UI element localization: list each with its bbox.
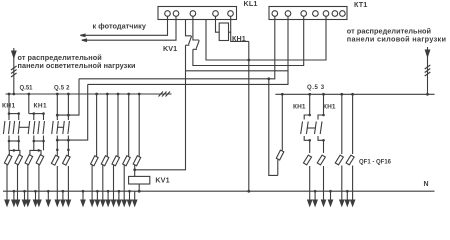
node bus1 tap 107.3 <box>106 93 109 96</box>
arrow 68.4 <box>67 191 69 201</box>
node at 57.3,140.1 <box>56 139 59 142</box>
wire from KT1 t1 down, left to 79 <box>79 16 275 79</box>
svg-text:KV1: KV1 <box>155 175 169 184</box>
node+arrow 97.4 <box>96 190 99 193</box>
coil KH1 (relay coil below KL1) <box>219 23 228 41</box>
KL1 terminal 5 <box>228 11 234 17</box>
wire 52a to breaker <box>56 150 58 156</box>
wire tap 282.3 down <box>281 94 283 150</box>
node KV1 coil to N bus <box>138 190 141 193</box>
node+arrow 24.5 <box>23 190 26 193</box>
wire coil right side to KL1 t5 <box>229 16 231 32</box>
arrow 102.8 <box>102 191 104 201</box>
bus1 break hatch <box>159 92 164 97</box>
wire vertical 185.5 down to KV1 coil feed, left to coil top node <box>135 71 186 170</box>
breaker QF 96.6 <box>91 156 99 166</box>
supply feeder left (from lighting distribution panel) <box>13 48 15 94</box>
split bracket group1 <box>9 150 20 155</box>
node+arrow 48.3 <box>47 190 50 193</box>
node split 309.7,115 <box>308 114 311 117</box>
breaker QF 341.8 <box>335 155 343 165</box>
node+arrow 108.1 <box>107 190 110 193</box>
wire vertical 248.8 from 41.4 down to N bus <box>248 41 250 191</box>
node KV1 feed junction <box>134 165 136 170</box>
node (junction dot) at 248.8,60 <box>247 59 250 62</box>
node bus2 tap 309.7 <box>308 93 311 96</box>
bottom hook bracket B <box>318 136 324 140</box>
arrow 341.8 <box>341 191 343 201</box>
supply feeder right (from power distribution panel) <box>427 47 429 94</box>
wire vertical 79 down, left to 0.52 branch node <box>57 79 79 115</box>
svg-text:Q.5 3: Q.5 3 <box>307 85 325 91</box>
KL1 terminal 4 <box>213 11 219 17</box>
node at 57.3,115.1 <box>56 114 59 117</box>
arrow 134.7 <box>134 191 136 201</box>
node+arrow 129.5 <box>128 190 131 193</box>
svg-text:КН1: КН1 <box>34 103 48 110</box>
contact KH1 blade A2 <box>306 122 308 135</box>
breaker QF branch 6 (inline at 68.4) <box>63 155 71 165</box>
node bus2 tap 282.3 <box>281 93 284 96</box>
bus bar 1 (lighting panel bus) <box>6 93 172 95</box>
KT1 terminal 2 <box>285 11 291 17</box>
contact KH1 blade B1 <box>315 122 317 135</box>
arrow 17.5 <box>17 191 19 201</box>
node+arrow 118.9 <box>118 190 121 193</box>
breaker QF branch 2 (top 19.9 -> bottom 15.4) <box>15 155 23 165</box>
breaker QF 118 <box>112 156 120 166</box>
contact KH1 pole 2b (double blade) <box>38 114 45 141</box>
node at 68.4,140.1 <box>67 139 70 142</box>
wire coil side down to node, right to vertical 249 <box>231 32 249 41</box>
KL1 terminal 1 <box>165 11 171 17</box>
node split 323.5,115 <box>322 114 325 117</box>
contact KH1 blade A1 <box>301 122 303 135</box>
node+arrow 13.9 <box>13 190 16 193</box>
linkage bar 52a-52b <box>58 126 63 128</box>
wire below aux contact down to junction, right to KT1 t2 <box>186 45 289 71</box>
breaker QF (control feed) <box>276 150 284 160</box>
arrow 309.7 <box>309 191 311 201</box>
node+arrow 315.1 <box>314 190 317 193</box>
breaker QF 128.7 <box>123 156 131 166</box>
node feeder-left / bus1 <box>12 93 15 96</box>
node bus1 tap 68.4 <box>67 93 70 96</box>
node+arrow 62.9 <box>62 190 65 193</box>
wire KL1 t4 to coil left side <box>216 16 220 32</box>
node+arrow 330.5 <box>329 190 332 193</box>
wire tap 57.3 down <box>56 94 58 115</box>
node at 268.8,78.8 <box>267 77 270 80</box>
node rejoin 309.7,140.3 <box>308 139 311 142</box>
arrow 7.0 <box>6 191 8 201</box>
svg-text:KL1: KL1 <box>244 0 258 8</box>
svg-text:QF1 - QF16: QF1 - QF16 <box>359 159 392 165</box>
breaker QF 352.6 <box>346 155 354 165</box>
pole wires to split bracket <box>9 141 19 150</box>
linkage bar group1-group2 <box>19 126 30 128</box>
arrow 113.5 <box>113 191 115 201</box>
node+arrow 347.3 <box>346 190 349 193</box>
wire from KL1 box bottom at 206 down, right to KT1 t5 <box>206 16 326 60</box>
node bus1 tap 139.2 <box>138 93 141 96</box>
node bus1 tap 28.8 <box>27 93 30 96</box>
breaker QF 107.3 <box>101 156 109 166</box>
node bus2 tap 352.6 <box>351 93 354 96</box>
KT1 terminal 1 <box>272 11 278 17</box>
svg-text:KV1: KV1 <box>163 44 177 53</box>
wire tap 28.8 down <box>28 94 30 114</box>
KL1 terminal 2 <box>173 11 179 17</box>
arrow 38.9 <box>38 191 40 201</box>
node bus1 tap 57.3 <box>56 93 59 96</box>
wire vertical 87.7 down, left to 0.52 branch lower node <box>57 84 87 140</box>
KT1 terminal 5 <box>323 11 329 17</box>
svg-text:к фотодатчику: к фотодатчику <box>93 21 147 30</box>
arrow 57.3 <box>56 191 58 201</box>
second contact (KL1 auxiliary) on wire at 185.5 <box>186 20 192 36</box>
wire to photosensor line 1 with left arrow <box>82 16 168 35</box>
relay box KL1 <box>158 7 237 20</box>
fuse QF 309.7 <box>309 140 311 153</box>
contact pole 52a (double blade) <box>52 115 59 150</box>
node N 248.8 <box>247 190 250 193</box>
wire tap 9 down <box>8 94 10 114</box>
bus bar 2 (power panel bus) <box>275 93 434 95</box>
arrow 92.1 <box>91 191 93 201</box>
contact KV1 (on wire from KL1 t3) <box>193 16 199 40</box>
breaker QF branch 5 (inline at 57.3) <box>51 155 59 165</box>
contact KH1 blade B2 <box>320 122 322 135</box>
wire to photosensor line 2 with left arrow <box>84 16 177 40</box>
contact KH1 pole 1a (double blade) <box>3 114 10 141</box>
svg-text:КН1: КН1 <box>2 103 16 110</box>
node+arrow 35.5 <box>34 190 37 193</box>
node bus1 tap 118 <box>117 93 120 96</box>
rejoin jumper group2 <box>34 140 44 142</box>
breaker QF branch 4 (top 41 -> bottom 36.5) <box>36 155 44 165</box>
pole wires to split bracket <box>34 141 44 150</box>
KT1 terminal 3 <box>301 11 307 17</box>
node rejoin 323.5,140.3 <box>322 139 325 142</box>
contact pole 52b (double blade) <box>63 115 70 150</box>
wire from KT1 t2 down through junction to horizontal 84.4 <box>88 16 288 84</box>
breaker QF branch 3 (top 29.9 -> bottom 25.4) <box>25 155 33 165</box>
KL1 terminal 3 <box>190 11 196 17</box>
svg-text:КН1: КН1 <box>293 104 306 111</box>
relay box KT1 <box>269 7 347 20</box>
svg-text:КН1: КН1 <box>323 104 336 111</box>
rejoin jumper group1 <box>9 140 19 142</box>
top hook bracket B <box>318 115 324 120</box>
svg-text:Q.5 2: Q.5 2 <box>54 85 70 91</box>
svg-text:КН1: КН1 <box>232 34 246 43</box>
contact KH1 pole 2a (double blade) <box>28 114 35 141</box>
fuse QF 323.5 <box>323 140 325 153</box>
KT1 terminal 6 <box>332 11 338 17</box>
KT1 terminal 4 <box>313 11 319 17</box>
arrow 27.8 <box>27 191 29 201</box>
svg-text:панели силовой нагрузки: панели силовой нагрузки <box>347 34 446 43</box>
wire tap 68.4 down <box>67 94 69 115</box>
wire vertical 268.8 down, right to breaker bottom <box>269 79 278 176</box>
N bus (neutral bus) <box>3 190 435 192</box>
KT1 terminal 7 <box>340 11 346 17</box>
linkage bar A-B <box>307 127 316 129</box>
svg-text:N: N <box>424 181 429 188</box>
split bracket group2 <box>30 150 41 155</box>
coil KV1 (photo relay coil) <box>134 170 136 177</box>
top hook bracket A <box>304 115 310 120</box>
arrow 352.6 <box>352 191 354 201</box>
contact KH1 pole 1b (double blade) <box>13 114 20 141</box>
arrow 124.2 <box>123 191 125 201</box>
node bus1 tap 9 <box>8 93 11 96</box>
node bus1 tap 96.6 <box>95 93 98 96</box>
svg-text:КТ1: КТ1 <box>354 0 367 9</box>
node bus1 tap 128.7 <box>127 93 130 96</box>
wire 52b to breaker <box>67 150 69 156</box>
jumper 9-18.7 with nodes <box>9 113 19 115</box>
node+arrow 83 <box>82 190 85 193</box>
arrow 323.5 <box>323 191 325 201</box>
node at 68.4,115.1 <box>67 114 70 117</box>
svg-text:Q.51: Q.51 <box>20 85 34 91</box>
bottom hook bracket A <box>304 136 310 140</box>
breaker QF branch 1 (top 9.3 -> bottom 4.8) <box>4 155 12 165</box>
node bus2 tap 323.5 <box>322 93 325 96</box>
svg-text:панели осветительной нагрузки: панели осветительной нагрузки <box>18 61 136 70</box>
wire below KV1 contact down and right to KT1 t3 <box>193 16 304 65</box>
breaker QF 139.2 <box>133 156 141 166</box>
node feeder-right / bus2 <box>426 93 429 96</box>
node bus2 tap 341.8 <box>340 93 343 96</box>
jumper 28.8-43.5 with nodes <box>29 113 44 115</box>
